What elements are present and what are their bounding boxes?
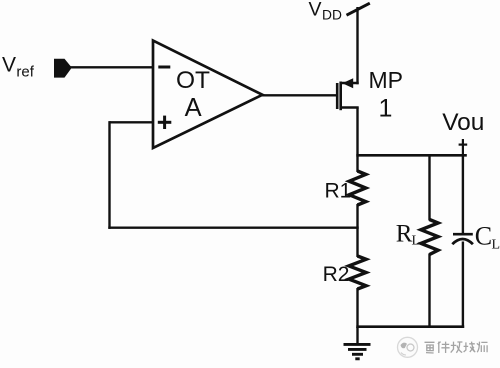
svg-text:DD: DD (322, 7, 342, 22)
svg-text:ref: ref (16, 64, 34, 81)
svg-text:A: A (185, 94, 202, 122)
svg-text:V: V (2, 54, 16, 77)
svg-text:Vou: Vou (442, 109, 484, 136)
svg-text:MP: MP (369, 67, 404, 93)
svg-text:L: L (412, 234, 421, 249)
svg-text:R1: R1 (325, 180, 352, 203)
svg-text:L: L (492, 238, 500, 253)
svg-text:R2: R2 (323, 263, 350, 286)
svg-text:OT: OT (176, 67, 210, 94)
svg-text:R: R (396, 221, 413, 248)
svg-text:V: V (309, 0, 322, 20)
svg-text:1: 1 (379, 94, 393, 122)
svg-text:C: C (475, 222, 492, 251)
